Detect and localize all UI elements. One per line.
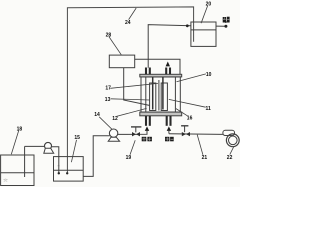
svg-text:16: 16	[187, 115, 193, 121]
svg-text:24: 24	[125, 20, 131, 26]
svg-text:12: 12	[112, 116, 118, 122]
svg-text:18: 18	[17, 126, 23, 132]
central electrode rod	[158, 80, 160, 111]
label 21 with leader	[197, 135, 207, 161]
electrode tube right	[161, 83, 167, 111]
label 16 with leader	[176, 109, 193, 122]
label 12 with leader	[112, 108, 146, 121]
label 20 with leader	[201, 1, 211, 23]
scan speckle marks	[4, 166, 61, 182]
valve 21 air	[181, 126, 190, 137]
port bottom-right	[167, 116, 171, 126]
wire fuel pipe from pump 14 through valve to riser	[118, 131, 147, 135]
label 13 with leader	[105, 97, 150, 103]
label 22 with leader	[227, 147, 234, 161]
label 19 with leader	[126, 140, 136, 161]
svg-text:20: 20	[206, 1, 212, 7]
pump 14	[108, 129, 119, 141]
wire tail-gas outlet line	[216, 25, 225, 27]
reactor inner tube wall	[146, 77, 176, 112]
reactor bottom flange	[140, 112, 182, 116]
svg-text:10: 10	[206, 72, 212, 78]
label 24 with leader	[125, 8, 136, 26]
wire from power supply bottom to left electrode	[124, 68, 150, 106]
tank 18 left	[1, 155, 34, 186]
wire pipe tank 18 to pump 26	[25, 145, 45, 147]
svg-text:11: 11	[206, 106, 212, 112]
label 空气 air	[165, 137, 174, 142]
svg-text:21: 21	[202, 155, 208, 161]
electrode rod right	[162, 77, 164, 110]
arrow air inlet up into bottom-right port	[167, 126, 171, 130]
electrode rod left	[152, 77, 154, 110]
svg-text:14: 14	[94, 112, 100, 118]
wire tank 15 outlet to pump 14	[83, 136, 110, 177]
node junction dot at condenser inlet	[186, 24, 189, 27]
svg-text:17: 17	[105, 86, 111, 92]
arrow fuel inlet up into bottom-left port	[145, 126, 149, 130]
port bottom-left	[146, 116, 150, 126]
svg-text:13: 13	[105, 97, 111, 103]
pump 26 left	[44, 142, 54, 153]
arrow gas rising from top-right port	[166, 62, 170, 67]
svg-text:22: 22	[227, 155, 233, 161]
electrode tube left	[150, 83, 156, 111]
reactor outer shell	[141, 77, 180, 112]
node dip end dot center	[66, 172, 68, 174]
reactor top flange	[140, 74, 182, 77]
tank 15 middle	[54, 157, 84, 182]
wire gas outlet pipe from reactor port to condenser 20	[148, 25, 191, 68]
wire pump 26 outlet into tank 15	[51, 147, 58, 173]
label 10 with leader	[177, 72, 212, 82]
wire air pipe from blower through valve to riser	[169, 131, 223, 135]
blower 22	[223, 130, 239, 146]
label 28 with leader	[106, 33, 122, 55]
wire top recirculation pipe from tank 15 up and across to condenser 20	[67, 7, 193, 173]
svg-text:28: 28	[106, 33, 112, 39]
label 17 with leader	[105, 83, 158, 91]
svg-text:19: 19	[126, 155, 132, 161]
svg-text:15: 15	[74, 135, 80, 141]
port top-left	[146, 68, 150, 75]
label 18 with leader	[11, 126, 22, 154]
label 燃料 fuel	[142, 137, 152, 142]
label 11 with leader	[169, 99, 211, 112]
wire dip tube tank 18	[24, 146, 26, 177]
label 14 with leader to pump	[94, 112, 112, 130]
condenser vessel 20	[191, 22, 216, 46]
valve 19 fuel	[131, 127, 141, 136]
port top-right	[166, 68, 170, 75]
label 15 with leader	[71, 135, 80, 162]
node dip end dot left	[58, 172, 60, 174]
node tail-gas arrow dot	[224, 25, 227, 28]
label 尾气 tail gas	[223, 17, 230, 23]
wire from power supply to reactor top-right flange	[135, 59, 180, 74]
power supply box 28	[109, 55, 134, 68]
